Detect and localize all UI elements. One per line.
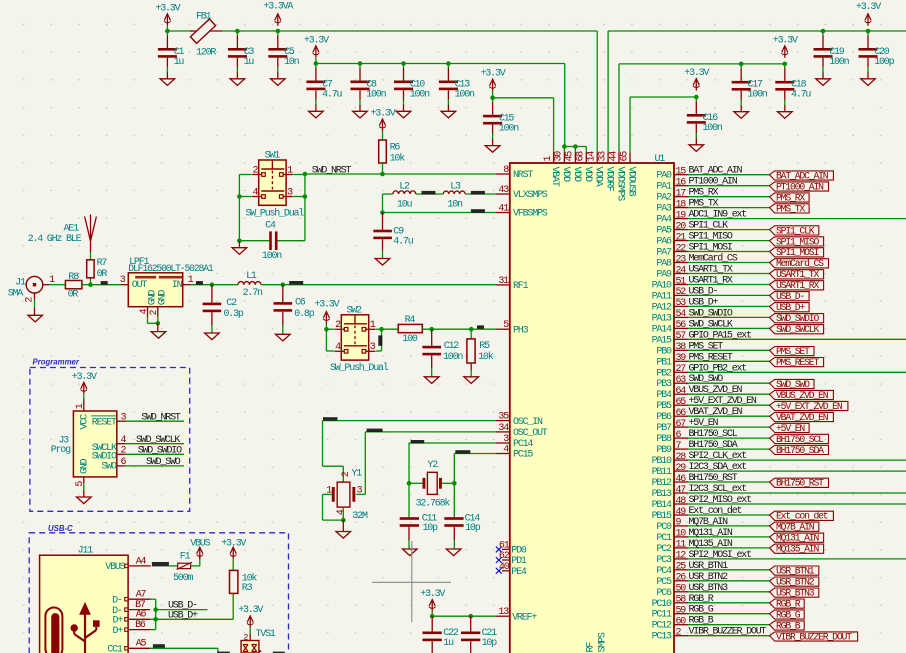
node — [407, 481, 412, 486]
svg-text:PT1000_AIN: PT1000_AIN — [689, 177, 738, 188]
svg-text:100n: 100n — [262, 251, 282, 262]
power +3.3V — [382, 119, 384, 131]
wire — [150, 647, 218, 649]
svg-text:PC10: PC10 — [652, 599, 672, 610]
svg-text:A6: A6 — [136, 609, 147, 620]
svg-text:VDD: VDD — [571, 167, 582, 183]
svg-text:32M: 32M — [352, 511, 368, 522]
ground — [342, 520, 344, 531]
svg-text:C12: C12 — [444, 341, 460, 352]
svg-text:PB2: PB2 — [656, 368, 672, 379]
node — [469, 327, 474, 332]
node — [153, 607, 158, 612]
svg-text:A7: A7 — [136, 589, 147, 600]
svg-text:USR_BTN2: USR_BTN2 — [689, 572, 729, 583]
pin 61 PD0 U1 (no-connect) — [502, 548, 510, 550]
wire USB_D- — [150, 598, 156, 600]
svg-text:BAT_ADC_AIN: BAT_ADC_AIN — [689, 166, 743, 177]
pin 65 VDDUSB U1 — [629, 153, 631, 164]
svg-text:+3.3V: +3.3V — [684, 68, 709, 79]
wire — [431, 612, 433, 617]
node — [276, 29, 281, 34]
capacitor C22 — [431, 616, 433, 631]
svg-text:USART1_RX: USART1_RX — [776, 280, 819, 291]
wire — [326, 328, 334, 330]
pin 3 LPF1 — [121, 284, 128, 286]
svg-text:PC12: PC12 — [652, 621, 672, 632]
svg-text:PB5: PB5 — [656, 401, 672, 412]
wire — [191, 565, 200, 567]
node — [468, 614, 473, 619]
svg-text:PC1: PC1 — [656, 533, 672, 544]
wire VDD drop — [564, 64, 566, 147]
capacitor C20 — [867, 31, 869, 35]
svg-text:SPI1_MISO: SPI1_MISO — [689, 232, 733, 243]
ground — [205, 333, 220, 340]
node — [237, 194, 242, 199]
svg-text:PA0: PA0 — [656, 171, 672, 182]
svg-text:SMPS: SMPS — [598, 632, 609, 652]
svg-text:18: 18 — [676, 199, 687, 210]
power +3.3VA — [277, 14, 279, 26]
resistor R6 — [379, 140, 387, 163]
pin 4 LPF1 — [147, 307, 149, 317]
ground — [276, 334, 291, 341]
svg-text:15: 15 — [676, 167, 687, 178]
svg-text:PA8: PA8 — [656, 259, 672, 270]
wire — [82, 284, 91, 286]
node — [573, 144, 578, 149]
svg-text:+3.3V: +3.3V — [72, 372, 97, 383]
node — [429, 327, 434, 332]
svg-text:MemCard_CS: MemCard_CS — [689, 253, 738, 265]
svg-text:DLF162500LT-5028A1: DLF162500LT-5028A1 — [128, 263, 214, 274]
svg-text:Y1: Y1 — [351, 468, 362, 479]
svg-text:PD1: PD1 — [511, 556, 527, 567]
svg-text:PMS_RESET: PMS_RESET — [689, 352, 733, 363]
svg-text:62: 62 — [499, 551, 510, 562]
svg-text:SWD_SWCLK: SWD_SWCLK — [689, 319, 733, 330]
node — [165, 29, 170, 34]
svg-text:RGB_G: RGB_G — [776, 609, 801, 620]
svg-text:SPI2_MOSI_ext: SPI2_MOSI_ext — [689, 550, 752, 561]
svg-text:PA13: PA13 — [652, 313, 672, 324]
wire — [232, 593, 234, 619]
svg-text:SWD_SWO: SWD_SWO — [146, 457, 181, 468]
svg-text:45: 45 — [565, 151, 576, 162]
svg-text:PC0: PC0 — [656, 522, 672, 533]
node — [153, 617, 158, 622]
svg-text:Prog: Prog — [51, 445, 71, 456]
pin 41 VFBSMPS U1 — [496, 212, 510, 214]
wire — [382, 131, 384, 140]
svg-text:24: 24 — [676, 265, 687, 276]
power +3.3V — [83, 382, 85, 394]
wire — [293, 174, 305, 176]
crystal Y1 — [337, 482, 350, 507]
node — [281, 282, 286, 287]
svg-text:SWD_SWDIO: SWD_SWDIO — [138, 446, 182, 457]
svg-text:44: 44 — [608, 151, 619, 162]
svg-text:33: 33 — [597, 151, 608, 162]
pin 1 LPF1 — [183, 284, 191, 286]
svg-text:L1: L1 — [246, 271, 257, 282]
svg-text:GPIO_PB2_ext: GPIO_PB2_ext — [689, 363, 747, 374]
wire — [376, 328, 382, 330]
svg-text:+3.3V: +3.3V — [856, 2, 881, 13]
pin 43 VLXSMPS U1 — [496, 193, 510, 195]
svg-text:50: 50 — [676, 584, 687, 595]
svg-text:VIBR_BUZZER_DOUT: VIBR_BUZZER_DOUT — [776, 631, 852, 642]
svg-text:RGB_R: RGB_R — [689, 594, 714, 605]
svg-text:31: 31 — [498, 276, 509, 287]
wire SWD_SWO — [125, 465, 184, 467]
svg-text:100n: 100n — [455, 89, 475, 100]
pin 3 PC14 U1 — [496, 442, 510, 444]
svg-text:BH1750_SDA: BH1750_SDA — [776, 445, 824, 456]
svg-text:SPI1_CLK: SPI1_CLK — [776, 225, 815, 236]
svg-text:SW2: SW2 — [347, 305, 363, 316]
wire cap-bank rail — [316, 63, 565, 65]
svg-text:10u: 10u — [397, 199, 413, 210]
switch SW2 — [341, 315, 368, 360]
svg-text:100n: 100n — [499, 124, 519, 135]
net name — [153, 644, 165, 648]
pin 31 RF1 U1 — [496, 284, 510, 286]
svg-text:PB10: PB10 — [652, 456, 672, 467]
svg-text:SPI2_MISO_ext: SPI2_MISO_ext — [689, 495, 752, 506]
svg-text:PC3: PC3 — [656, 555, 672, 566]
wire — [239, 174, 251, 176]
pin 68 VDD U1 — [585, 153, 587, 164]
svg-text:PB3: PB3 — [656, 379, 672, 390]
capacitor C6 — [282, 285, 284, 302]
net name — [152, 562, 169, 566]
svg-text:14: 14 — [587, 151, 598, 162]
svg-text:USB_D-: USB_D- — [776, 291, 804, 302]
svg-text:16: 16 — [676, 178, 687, 189]
svg-text:SWD_SWO: SWD_SWO — [776, 379, 810, 390]
pin 2 J3 — [117, 453, 125, 455]
wire +3.3VA rail — [222, 30, 597, 32]
wire SWD_SWCLK — [125, 443, 184, 445]
svg-text:PC11: PC11 — [652, 610, 672, 621]
ferrite bead FB1 — [190, 30, 222, 32]
pin 33 VDDRF U1 — [607, 153, 609, 164]
svg-text:USB_D+: USB_D+ — [776, 302, 805, 313]
svg-text:PB6: PB6 — [656, 412, 672, 423]
svg-text:RGB_B: RGB_B — [776, 620, 801, 631]
resistor R8 — [65, 281, 82, 289]
svg-text:PD0: PD0 — [511, 546, 527, 557]
net name — [323, 417, 338, 420]
svg-text:51: 51 — [676, 276, 687, 287]
ground — [238, 241, 240, 248]
svg-text:PA14: PA14 — [652, 324, 672, 335]
pin 1 VBAT U1 — [553, 153, 555, 164]
svg-text:R5: R5 — [479, 341, 490, 352]
svg-text:PC15: PC15 — [513, 450, 533, 461]
power +3.3V — [166, 14, 168, 26]
wire — [325, 324, 327, 330]
svg-text:J11: J11 — [78, 545, 94, 556]
svg-text:PB8: PB8 — [656, 434, 672, 445]
capacitor C14 — [453, 483, 455, 517]
svg-text:USART1_TX: USART1_TX — [689, 265, 733, 276]
svg-text:RGB_R: RGB_R — [776, 599, 801, 610]
svg-text:TVS1: TVS1 — [256, 629, 276, 640]
svg-text:SWO: SWO — [101, 462, 117, 473]
svg-text:Ext_con_det: Ext_con_det — [776, 511, 828, 522]
capacitor C3 — [236, 31, 238, 35]
svg-text:1u: 1u — [174, 57, 185, 68]
svg-text:100n: 100n — [410, 89, 430, 100]
wire VDDUSB rail — [629, 97, 631, 153]
svg-text:SWD_SWCLK: SWD_SWCLK — [136, 435, 180, 446]
svg-text:100n: 100n — [443, 352, 463, 363]
pin 6 J3 — [117, 465, 125, 467]
svg-text:VDDRF: VDDRF — [604, 167, 615, 192]
IC U1 body — [510, 163, 674, 653]
ground — [403, 549, 418, 556]
svg-text:PA6: PA6 — [656, 237, 672, 248]
crystal Y2 — [427, 472, 437, 494]
wire +3.3V rail — [167, 30, 193, 32]
svg-text:SWD_NRST: SWD_NRST — [312, 165, 352, 176]
wire C4 row — [239, 240, 269, 242]
sheet Programmer — [30, 368, 190, 512]
svg-text:+3.3V: +3.3V — [238, 605, 263, 616]
svg-text:59: 59 — [676, 606, 687, 617]
antenna AE1 — [90, 252, 92, 260]
svg-text:17: 17 — [676, 189, 687, 200]
svg-text:C2: C2 — [226, 298, 237, 309]
svg-text:PA1: PA1 — [656, 182, 672, 193]
capacitor C21 — [470, 616, 472, 631]
ground — [464, 377, 479, 384]
svg-text:USR_BTN2: USR_BTN2 — [776, 577, 815, 588]
svg-text:R6: R6 — [390, 143, 401, 154]
node — [235, 29, 240, 34]
svg-text:+3.3VA: +3.3VA — [263, 2, 293, 13]
wire VBAT — [493, 97, 554, 99]
capacitor C18 — [784, 64, 786, 68]
net name — [273, 652, 285, 653]
svg-text:SWD_SWDIO: SWD_SWDIO — [689, 308, 733, 319]
svg-text:41: 41 — [498, 204, 509, 215]
svg-text:PT1000_AIN: PT1000_AIN — [776, 181, 824, 192]
svg-text:100n: 100n — [703, 123, 723, 134]
svg-text:GND: GND — [158, 290, 169, 306]
svg-text:USB-C: USB-C — [48, 524, 73, 533]
svg-text:A4: A4 — [136, 556, 147, 567]
svg-text:MQ131_AIN: MQ131_AIN — [689, 528, 733, 539]
svg-text:SPI1_MISO: SPI1_MISO — [776, 236, 819, 247]
svg-text:67: 67 — [676, 419, 687, 430]
node — [210, 282, 215, 287]
svg-text:R7: R7 — [97, 258, 108, 269]
wire — [315, 58, 317, 64]
capacitor C5 — [277, 31, 279, 35]
node — [490, 96, 495, 101]
wire — [322, 494, 324, 520]
svg-text:PA15: PA15 — [652, 335, 672, 346]
wire — [169, 565, 178, 567]
svg-text:+3.3V: +3.3V — [773, 35, 798, 46]
svg-text:VREF+: VREF+ — [512, 612, 537, 623]
svg-text:FB1: FB1 — [196, 11, 212, 22]
net name — [471, 209, 485, 213]
wire — [422, 328, 495, 330]
net name — [367, 429, 383, 432]
capacitor C16 — [695, 97, 697, 101]
svg-text:VDD: VDD — [582, 167, 593, 183]
pin 2 LPF1 — [157, 307, 159, 317]
wire VDDA drop — [596, 31, 598, 153]
filter LPF1 — [128, 273, 182, 307]
svg-text:VDDUSB: VDDUSB — [626, 167, 637, 197]
capacitor C4 — [269, 231, 272, 250]
svg-text:46: 46 — [676, 474, 687, 485]
pin 8 NRST U1 — [496, 173, 510, 175]
svg-text:58: 58 — [676, 595, 687, 606]
svg-text:RGB_G: RGB_G — [689, 605, 714, 616]
fuse F1 — [178, 563, 191, 568]
svg-text:R8: R8 — [68, 272, 79, 283]
net name — [477, 325, 484, 328]
svg-text:MQ131_AIN: MQ131_AIN — [776, 533, 819, 544]
svg-text:27: 27 — [676, 364, 687, 375]
svg-text:MemCard_CS: MemCard_CS — [776, 258, 824, 269]
svg-text:OSC_IN: OSC_IN — [513, 417, 543, 428]
svg-text:VIBR_BUZZER_DOUT: VIBR_BUZZER_DOUT — [689, 627, 767, 638]
wire — [382, 163, 384, 174]
node — [446, 61, 451, 66]
svg-text:1u: 1u — [244, 57, 255, 68]
svg-text:R3: R3 — [242, 583, 253, 594]
svg-text:52: 52 — [676, 287, 687, 298]
svg-text:VFBSMPS: VFBSMPS — [513, 209, 548, 220]
svg-text:VBUS: VBUS — [105, 562, 125, 573]
net name — [196, 281, 203, 285]
svg-text:B6: B6 — [135, 620, 146, 631]
svg-text:I2C3_SDA_ext: I2C3_SDA_ext — [689, 462, 747, 473]
svg-text:PA11: PA11 — [652, 291, 672, 302]
node — [739, 62, 744, 67]
svg-text:49: 49 — [676, 507, 687, 518]
svg-text:MQ7B_AIN: MQ7B_AIN — [776, 522, 815, 533]
svg-text:32.768k: 32.768k — [416, 498, 451, 510]
wire — [50, 284, 66, 286]
wire — [585, 147, 587, 153]
capacitor C1 — [166, 31, 168, 35]
svg-text:10n: 10n — [447, 199, 463, 210]
power +3.3V — [232, 547, 234, 559]
svg-text:PB9: PB9 — [656, 445, 672, 456]
svg-text:PMS_RESET: PMS_RESET — [776, 357, 819, 368]
pin 4 J3 — [117, 443, 125, 445]
svg-text:SWD_NRST: SWD_NRST — [141, 412, 181, 423]
svg-text:I2C3_SCL_ext: I2C3_SCL_ext — [689, 484, 747, 495]
crosshair — [372, 581, 451, 583]
pin 62 PD1 U1 (no-connect) — [502, 559, 510, 561]
svg-text:1u: 1u — [443, 638, 454, 649]
svg-text:VDDSMPS: VDDSMPS — [615, 167, 626, 202]
svg-text:66: 66 — [676, 408, 687, 419]
wire VDDSMPS rail — [618, 64, 620, 153]
svg-text:USB_D+: USB_D+ — [689, 297, 719, 308]
node — [324, 327, 329, 332]
svg-text:MQ135_AIN: MQ135_AIN — [776, 544, 819, 555]
svg-text:PB13: PB13 — [652, 489, 672, 500]
svg-text:28: 28 — [676, 452, 687, 463]
power +3.3V — [695, 79, 697, 91]
svg-text:PB12: PB12 — [652, 478, 672, 489]
svg-text:USART1_RX: USART1_RX — [689, 276, 733, 287]
svg-text:0.8p: 0.8p — [294, 309, 314, 320]
connector J3 — [73, 411, 116, 477]
node — [562, 144, 567, 149]
power +3.3V — [249, 616, 251, 628]
svg-text:PMS_SET: PMS_SET — [689, 341, 724, 352]
resistor R7 — [90, 278, 92, 285]
svg-text:43: 43 — [498, 185, 509, 196]
wire — [232, 559, 234, 570]
pin 35 OSC_IN U1 — [496, 420, 510, 422]
svg-text:34: 34 — [498, 423, 509, 434]
svg-text:120R: 120R — [196, 48, 216, 59]
svg-text:23: 23 — [676, 254, 687, 265]
svg-text:63: 63 — [676, 375, 687, 386]
svg-text:A5: A5 — [136, 639, 147, 650]
svg-text:VBAT_ZVD_EN: VBAT_ZVD_EN — [776, 412, 829, 423]
svg-text:+5V_EXT_ZVD_EN: +5V_EXT_ZVD_EN — [776, 401, 843, 412]
wire — [563, 147, 565, 153]
svg-text:PB15: PB15 — [652, 511, 672, 522]
wire RF1 — [261, 284, 496, 286]
svg-text:64: 64 — [676, 386, 687, 397]
svg-text:PMS_TX: PMS_TX — [689, 199, 719, 210]
svg-text:C4: C4 — [265, 221, 276, 232]
svg-text:SWD_SWDIO: SWD_SWDIO — [776, 313, 819, 324]
svg-text:PA2: PA2 — [656, 193, 672, 204]
node — [379, 327, 384, 332]
svg-text:VLXSMPS: VLXSMPS — [513, 190, 548, 201]
svg-text:4.7u: 4.7u — [393, 236, 413, 247]
svg-text:10p: 10p — [465, 523, 481, 534]
node — [88, 282, 93, 287]
svg-text:D+: D+ — [112, 626, 123, 637]
svg-text:PA3: PA3 — [656, 204, 672, 215]
svg-text:SPI2_CLK_ext: SPI2_CLK_ext — [689, 451, 747, 462]
wire OSC_IN — [323, 420, 496, 422]
net name — [411, 440, 425, 443]
net name — [101, 281, 108, 285]
capacitor C2 — [211, 285, 213, 303]
node — [380, 172, 385, 177]
svg-text:GND: GND — [80, 458, 91, 474]
svg-text:4.7u: 4.7u — [322, 89, 342, 100]
node — [380, 210, 385, 215]
wire VDDRF rail — [608, 30, 906, 32]
svg-text:PE4: PE4 — [511, 567, 527, 578]
svg-text:PA9: PA9 — [656, 270, 672, 281]
ground — [446, 549, 461, 556]
svg-text:PC13: PC13 — [652, 632, 672, 643]
svg-text:4.7u: 4.7u — [791, 90, 811, 101]
node — [821, 29, 826, 34]
sheet USB-C — [29, 533, 288, 653]
